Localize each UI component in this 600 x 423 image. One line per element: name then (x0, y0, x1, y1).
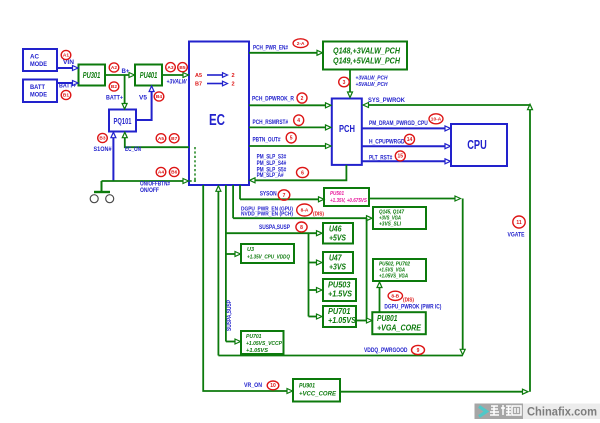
svg-text:10-A: 10-A (431, 117, 442, 123)
regulator PU701 (323, 306, 356, 327)
regulator PU701 VCCP (241, 331, 284, 354)
svg-text:8-A: 8-A (301, 208, 309, 214)
svg-text:EC: EC (209, 112, 225, 129)
pin circle 10 (267, 381, 279, 390)
svg-text:7: 7 (283, 193, 286, 199)
wire PU801->PU502 (379, 287, 381, 313)
svg-text:+5VALW_PCH: +5VALW_PCH (356, 82, 388, 88)
wire DGPU_PWR_EN (233, 217, 367, 219)
block CPU (451, 124, 507, 166)
pin circle A3 (166, 63, 176, 72)
svg-text:(DIS): (DIS) (403, 298, 414, 304)
svg-text:PU401: PU401 (140, 71, 158, 80)
pin circle 14 (405, 134, 415, 144)
block AC MODE (23, 49, 57, 71)
block PCH (332, 99, 362, 165)
svg-text:S1ON#: S1ON# (94, 146, 112, 153)
svg-text:11: 11 (516, 220, 522, 226)
svg-text:V5: V5 (139, 95, 148, 102)
svg-text:+1.05VS_VGA: +1.05VS_VGA (379, 274, 408, 280)
wire SYS_PWROK vertical (529, 107, 531, 392)
wire PCH_DPWROK_R (249, 104, 326, 106)
svg-text:VGATE: VGATE (508, 232, 525, 239)
pin circle B1 (61, 90, 71, 99)
svg-text:+1.05VS_VCCP: +1.05VS_VCCP (246, 341, 282, 347)
pin circle 7 (278, 190, 290, 200)
svg-text:AC: AC (30, 54, 39, 61)
svg-text:A4: A4 (158, 170, 164, 176)
svg-text:A1: A1 (63, 53, 69, 59)
svg-text:+1.05VS: +1.05VS (328, 316, 357, 325)
svg-text:A3: A3 (167, 65, 173, 71)
svg-text:+VGA_CORE: +VGA_CORE (377, 323, 421, 332)
svg-text:3: 3 (343, 80, 346, 86)
pin circle 2-A (293, 39, 308, 48)
wire PCH_PWR_EN# (249, 52, 318, 54)
pin circle B7 (169, 134, 179, 143)
svg-text:+5VS: +5VS (329, 234, 347, 243)
svg-text:PM_SLP_A#: PM_SLP_A# (257, 172, 284, 179)
svg-text:8: 8 (300, 225, 303, 231)
svg-text:PBTN_OUT#: PBTN_OUT# (253, 137, 281, 144)
svg-text:NVDD_PWR_EN (PCH): NVDD_PWR_EN (PCH) (241, 212, 293, 218)
wire S1ON# (112, 137, 114, 181)
svg-text:B7: B7 (195, 82, 202, 88)
svg-text:2-A: 2-A (297, 41, 305, 47)
svg-text:SUSPA,SUSP: SUSPA,SUSP (227, 300, 233, 331)
svg-text:A2: A2 (111, 65, 117, 71)
wire BATT->PU301 (57, 82, 73, 84)
svg-text:BATT+: BATT+ (106, 95, 123, 102)
wire B+ PU301->PU401 (105, 74, 130, 76)
block BATT MODE (23, 80, 57, 103)
power button contact 2 (106, 195, 114, 203)
wire SYSON (240, 198, 320, 200)
wire VR_ON loop (203, 185, 287, 391)
svg-text:+3VALW_PCH: +3VALW_PCH (356, 76, 388, 82)
pin circle 9 (412, 345, 425, 354)
wire PLT_RST# (362, 160, 446, 162)
switch Q145 Q147 (373, 207, 426, 229)
svg-text:PCH_DPWROK_R: PCH_DPWROK_R (252, 95, 294, 102)
wire SUSPA,SUSP (226, 232, 318, 234)
wire SYS_PWROK (367, 104, 530, 106)
svg-text:B4: B4 (156, 94, 162, 100)
regulator PU501 (324, 188, 369, 206)
svg-text:PU701: PU701 (246, 334, 262, 340)
wire U3 feed (226, 253, 237, 255)
power button contact 1 (90, 195, 98, 203)
svg-text:2: 2 (232, 82, 235, 88)
wire SUSP distribution vertical (308, 233, 310, 316)
svg-text:BATT+: BATT+ (59, 83, 76, 90)
svg-text:VDDQ_PWRGOOD: VDDQ_PWRGOOD (364, 347, 408, 354)
svg-text:U47: U47 (329, 254, 342, 263)
wire SYSON vertical (239, 185, 241, 199)
regulator U46 (323, 223, 353, 244)
wire VIN AC->PU301 (57, 67, 73, 69)
svg-text:+VCC_CORE: +VCC_CORE (299, 391, 337, 398)
svg-text:+1.35V, +0.675VS: +1.35V, +0.675VS (330, 198, 367, 204)
svg-text:PU501: PU501 (330, 191, 344, 197)
svg-text:8-B: 8-B (391, 294, 399, 300)
svg-text:PU801: PU801 (377, 314, 398, 323)
svg-text:+3VALW: +3VALW (167, 78, 188, 85)
svg-text:SYS_PWROK: SYS_PWROK (368, 97, 405, 104)
wire PM_SLP PCH->EC (255, 165, 347, 180)
svg-text:6: 6 (301, 170, 304, 176)
regulator PU801 (372, 312, 426, 334)
svg-text:2: 2 (232, 73, 235, 79)
svg-text:+1.35V_CPU_VDDQ: +1.35V_CPU_VDDQ (247, 255, 291, 261)
pin circle B3 (98, 133, 108, 142)
pin circle B4 (154, 92, 164, 101)
pin circle 10-A (429, 114, 443, 124)
pin circle B6 (169, 167, 179, 176)
wire PCH_RSMRST# (249, 126, 326, 128)
svg-text:+3VS_SLI: +3VS_SLI (379, 222, 401, 228)
regulator U47 (323, 252, 353, 273)
svg-text:2: 2 (301, 96, 304, 102)
svg-text:PU901: PU901 (299, 383, 315, 390)
pin circle 15 (395, 151, 405, 161)
svg-text:A5: A5 (195, 73, 202, 79)
svg-text:PU301: PU301 (83, 71, 101, 80)
wire PM_DRAM_PWRGD_CPU (362, 127, 446, 129)
pin circle 3 (339, 77, 350, 87)
pin circle 8-B (388, 291, 402, 300)
dashed bus at EC edge (194, 147, 196, 181)
svg-text:10: 10 (270, 383, 276, 389)
regulator U3 (241, 244, 294, 263)
svg-text:+3VS: +3VS (329, 263, 347, 272)
svg-text:SUSPA,SUSP: SUSPA,SUSP (259, 224, 290, 231)
svg-text:A5: A5 (158, 136, 164, 142)
svg-text:Chinafix.com: Chinafix.com (527, 406, 597, 419)
regulator PU502 PU702 (373, 259, 426, 281)
svg-text:ON/OFF: ON/OFF (140, 187, 159, 194)
svg-text:Q148,+3VALW_PCH: Q148,+3VALW_PCH (333, 47, 400, 56)
svg-text:4: 4 (297, 118, 300, 124)
svg-text:PM_DRAM_PWRGD_CPU: PM_DRAM_PWRGD_CPU (369, 120, 428, 127)
svg-text:MODE: MODE (30, 61, 48, 68)
pin circle A1 (61, 50, 71, 59)
svg-text:9: 9 (417, 348, 420, 354)
block EC (189, 42, 249, 186)
regulator PU401 (135, 65, 162, 86)
svg-text:B6: B6 (171, 170, 177, 176)
wire PU701 VCCP feed (226, 341, 237, 343)
svg-text:PU503: PU503 (328, 281, 351, 290)
wire B+ branch to PQ101 (124, 75, 126, 105)
svg-text:PLT_RST#: PLT_RST# (369, 154, 393, 161)
svg-text:SYSON: SYSON (260, 191, 277, 198)
svg-text:U46: U46 (329, 225, 342, 234)
pin circle A2 (109, 63, 119, 72)
svg-text:B7: B7 (171, 136, 177, 142)
pin circle A4 (156, 167, 166, 176)
svg-text:PCH: PCH (339, 124, 355, 135)
pin circle B2 (109, 82, 119, 91)
svg-text:VR_ON: VR_ON (244, 382, 262, 389)
pin circle 4 (294, 115, 304, 126)
svg-text:B5: B5 (179, 65, 185, 71)
svg-text:(DIS): (DIS) (313, 212, 324, 218)
svg-text:+1.05VS: +1.05VS (246, 348, 268, 354)
wire DGPU_PWR_EN vertical (232, 185, 234, 218)
wire PU701->PU801 (356, 320, 368, 322)
svg-text:5: 5 (290, 136, 293, 142)
svg-text:PCH_RSMRST#: PCH_RSMRST# (253, 119, 289, 126)
regulator PU503 (323, 279, 356, 301)
svg-text:B3: B3 (99, 136, 105, 142)
regulator PU301 (79, 65, 106, 86)
svg-text:+1.5VS: +1.5VS (328, 290, 353, 299)
wire PU901 out (340, 391, 523, 393)
svg-text:PQ101: PQ101 (114, 116, 132, 126)
wire PU503 feed (309, 289, 319, 291)
svg-text:B2: B2 (111, 84, 117, 90)
power button stem (101, 181, 103, 192)
wire PU501 down (462, 199, 464, 351)
pin circle 6 (297, 167, 309, 177)
svg-text:CPU: CPU (467, 138, 487, 152)
mosfet PQ101 (109, 110, 136, 132)
wire PU501 out (369, 198, 456, 200)
wire ON/OFF to EC (102, 180, 185, 182)
svg-text:B1: B1 (63, 93, 69, 99)
svg-text:PCH_PWR_EN#: PCH_PWR_EN# (253, 44, 288, 51)
svg-text:H_CPUPWRGD: H_CPUPWRGD (369, 139, 405, 146)
wire +3VALW_PCH Q148->PCH (349, 70, 351, 94)
wire U47 feed (309, 262, 319, 264)
wire VDDQ_PWRGOOD (218, 355, 462, 357)
pin circle 2 (297, 93, 307, 103)
svg-text:PU701: PU701 (328, 307, 351, 316)
wire EC_ON (125, 137, 189, 147)
pin circle 11 (513, 216, 525, 228)
pin circle 5 (286, 132, 296, 143)
wire SUSPA vertical (225, 185, 227, 342)
wire +3VALW PU401->EC (162, 74, 184, 76)
watermark chinafix (475, 404, 524, 420)
wire V5 PQ101->PU401 (136, 91, 152, 120)
svg-text:EC_ON: EC_ON (125, 146, 141, 153)
svg-text:DGPU_PWROK (PWR IC): DGPU_PWROK (PWR IC) (384, 304, 441, 311)
pin circle 8-A (297, 204, 313, 216)
pin circle 8 (296, 222, 307, 232)
pin circle A5 (156, 134, 166, 143)
wire PU701 feed (309, 316, 319, 318)
power button bar (94, 191, 110, 193)
wire DGPU branch down (366, 218, 368, 320)
switch Q148 Q149 (323, 42, 407, 70)
svg-text:BATT: BATT (30, 84, 45, 91)
svg-text:B+: B+ (122, 68, 130, 75)
wire H_CPUPWRGD (362, 145, 446, 147)
regulator PU901 (293, 379, 340, 402)
svg-text:U3: U3 (247, 247, 255, 253)
wire PBTN_OUT# (249, 145, 326, 147)
pin circle B5 (178, 63, 188, 72)
svg-text:14: 14 (407, 137, 413, 143)
svg-text:15: 15 (398, 154, 404, 160)
svg-text:MODE: MODE (30, 92, 48, 99)
svg-text:Q149,+5VALW_PCH: Q149,+5VALW_PCH (333, 57, 400, 66)
wire VDDQ_PWRGOOD to EC (217, 190, 219, 356)
